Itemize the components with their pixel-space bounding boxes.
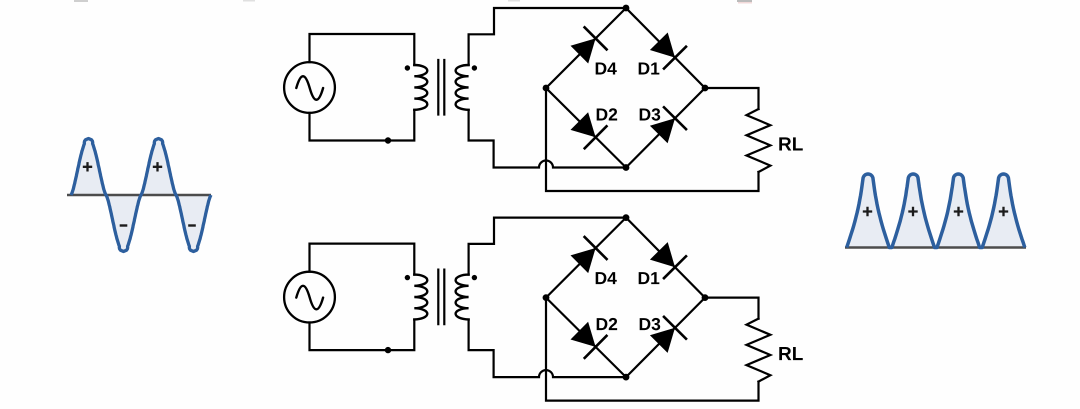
minus label on sine negative lobe 2 [188, 224, 196, 226]
diode D1 (bottom circuit) [650, 242, 686, 278]
diode D3 (top circuit) [650, 107, 686, 143]
bridge bottom node (bottom) [623, 374, 630, 381]
primary polarity dot (bottom) [405, 275, 410, 280]
diode D2 (bottom circuit) [571, 322, 607, 358]
wire: bridge left node down and along bottom to RL bottom (bottom) [546, 298, 759, 401]
secondary polarity dot (top) [472, 65, 477, 70]
bridge top node (bottom) [623, 214, 630, 221]
input sine waveform (left) [67, 139, 211, 252]
svg-text:D3: D3 [638, 314, 661, 334]
svg-text:RL: RL [778, 344, 804, 365]
bridge diamond wires (bottom) [546, 218, 705, 378]
transformer T1 primary winding (top) [414, 65, 427, 110]
resistor RL (bottom circuit) [747, 319, 771, 382]
bridge left node (top) [543, 85, 550, 92]
plus label on rectified hump 1 [863, 207, 872, 216]
wire: AC source bottom to primary winding bottom (bottom) [310, 320, 415, 351]
wire: secondary bottom to bridge bottom node, hops over left-node wire (bottom) [469, 320, 626, 378]
diode D4 (bottom circuit) [571, 237, 607, 273]
plus label on rectified hump 2 [908, 207, 917, 216]
bridge right node (top) [702, 85, 709, 92]
wire: secondary top to bridge top node (bottom) [469, 218, 626, 275]
bridge bottom node (top) [623, 164, 630, 171]
wire: secondary bottom to bridge bottom node, hops over left-node wire (top) [469, 110, 626, 168]
left waveform baseline [67, 194, 211, 197]
wire: secondary top to bridge top node (top) [469, 8, 626, 65]
right waveform rectified curve [847, 174, 1025, 248]
AC source V1 (bottom circuit) [284, 272, 335, 323]
plus label on rectified hump 4 [999, 207, 1008, 216]
primary polarity dot (top) [405, 65, 410, 70]
transformer T1 secondary winding (top) [456, 65, 469, 110]
diode D2 (top circuit) [571, 112, 607, 148]
bridge top node (top) [623, 5, 630, 12]
svg-text:D1: D1 [637, 268, 660, 288]
plus label on sine positive lobe 1 [83, 162, 92, 171]
transformer T1 secondary winding (bottom) [456, 275, 469, 320]
junction dot on primary bottom wire (bottom) [385, 347, 391, 353]
secondary polarity dot (bottom) [472, 275, 477, 280]
diode D3 (bottom circuit) [650, 317, 686, 353]
svg-text:D1: D1 [637, 59, 660, 79]
diode D4 (top circuit) [571, 27, 607, 63]
minus label on sine negative lobe 1 [120, 224, 128, 226]
wire: AC source top to primary winding top (top) [310, 34, 415, 65]
wire: bridge left node down and along bottom to RL bottom (top) [546, 88, 759, 191]
output full-wave rectified waveform (right) [845, 174, 1026, 248]
transformer core lines (bottom) [438, 270, 444, 325]
svg-text:D2: D2 [595, 105, 618, 125]
plus label on rectified hump 3 [954, 207, 963, 216]
svg-text:D4: D4 [594, 268, 617, 288]
transformer core lines (top) [438, 60, 444, 115]
diode D1 (top circuit) [650, 33, 686, 69]
plus label on sine positive lobe 2 [153, 162, 162, 171]
right waveform baseline [845, 246, 1026, 249]
svg-text:RL: RL [778, 135, 804, 156]
wire: bridge right node to RL top (top) [705, 88, 759, 109]
bridge right node (bottom) [702, 294, 709, 301]
wire: bridge right node to RL top (bottom) [705, 298, 759, 319]
AC source V1 (top circuit) [284, 62, 335, 113]
wire: AC source bottom to primary winding bottom (top) [310, 110, 415, 141]
transformer T1 primary winding (bottom) [414, 275, 427, 320]
wire: AC source top to primary winding top (bottom) [310, 244, 415, 275]
cropped text remnants at top edge [74, 0, 752, 3]
svg-text:D2: D2 [595, 314, 618, 334]
junction dot on primary bottom wire (top) [385, 137, 391, 143]
resistor RL (top circuit) [747, 109, 771, 172]
left waveform sine curve [71, 139, 211, 252]
bridge diamond wires (top) [546, 8, 705, 168]
svg-text:D3: D3 [638, 105, 661, 125]
svg-text:D4: D4 [594, 59, 617, 79]
bridge left node (bottom) [543, 294, 550, 301]
